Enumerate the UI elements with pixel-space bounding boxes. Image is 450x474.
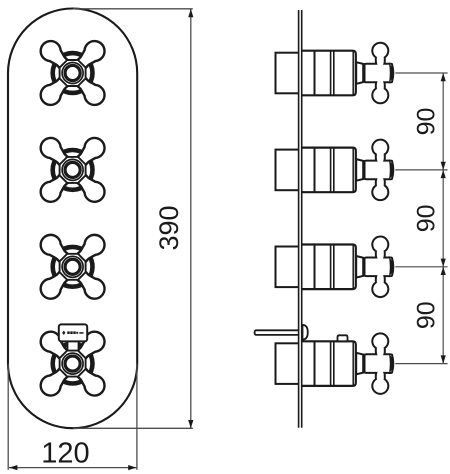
handle H2 front view [37, 134, 109, 206]
valve V4 side view [276, 333, 394, 394]
wall plate side view [298, 10, 302, 428]
handle H4 front view with label [37, 324, 109, 399]
dimension 90 extension lines [395, 73, 447, 364]
dimension 120 text [41, 438, 89, 470]
stop knob tab on valve V4 [338, 335, 348, 341]
svg-text:90: 90 [412, 204, 440, 232]
handle H3 front view [37, 231, 109, 303]
dimension 390 text [154, 205, 184, 250]
svg-text:390: 390 [154, 205, 184, 250]
dimension 90 text middle [412, 204, 440, 232]
dimension 390 extension line bottom [73, 427, 193, 429]
dimension 120 extension line right [136, 364, 138, 470]
dimension 120 extension line left [7, 364, 9, 470]
svg-text:90: 90 [412, 301, 440, 329]
dimension 390 line [188, 9, 193, 428]
valve V1 side view [276, 43, 394, 104]
dimension 90 text lower [412, 301, 440, 329]
lever boss on plate [303, 325, 308, 340]
dimension 90 text upper [412, 108, 440, 136]
valve V2 side view [276, 140, 394, 201]
dimension 390 extension line top [73, 8, 193, 10]
faceplate front view [8, 9, 137, 429]
valve V3 side view [276, 237, 394, 298]
handle H1 front view [37, 37, 109, 109]
dimension 120 line [9, 465, 136, 470]
svg-text:90: 90 [412, 108, 440, 136]
svg-text:120: 120 [41, 438, 89, 470]
dimension 90 line [441, 73, 446, 364]
diverter lever side view [255, 330, 300, 335]
